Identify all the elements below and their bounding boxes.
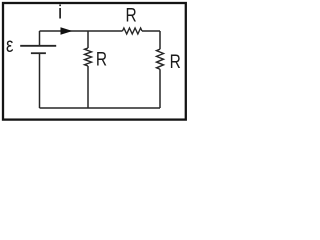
svg-text:R: R (170, 51, 181, 73)
svg-text:ε: ε (6, 34, 13, 57)
battery long plate (20, 45, 56, 47)
svg-text:i: i (58, 3, 62, 24)
svg-text:R: R (96, 49, 107, 71)
wire: bottom horizontal (40, 107, 161, 109)
resistor R (right, vertical zigzag) (157, 49, 164, 69)
svg-text:R: R (126, 4, 137, 26)
battery short plate (31, 52, 46, 54)
wire: right branch lower (159, 69, 161, 108)
wire: middle branch upper (87, 31, 89, 48)
wire: middle branch lower (87, 66, 89, 108)
wire: top right segment to corner (142, 30, 160, 32)
battery (EMF source) epsilon (20, 31, 56, 108)
wire: right branch upper (159, 31, 161, 49)
battery bottom stub wire (39, 53, 41, 108)
wire: top horizontal from battery to top resistor (40, 30, 123, 32)
border frame (3, 3, 186, 120)
resistor R (top, horizontal zigzag) (123, 28, 142, 34)
resistor R (middle, vertical zigzag) (85, 48, 92, 66)
battery top stub wire (39, 31, 41, 45)
current arrow (61, 27, 73, 35)
